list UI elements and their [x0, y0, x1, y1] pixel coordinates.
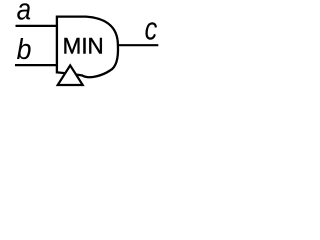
svg-text:a: a: [17, 0, 31, 27]
node label c: [145, 12, 158, 48]
wire a: [16, 25, 58, 27]
node label a: [17, 0, 31, 27]
triangle (weak/driver symbol): [58, 65, 83, 85]
wire b: [15, 64, 57, 66]
MIN gate U1 body: [57, 17, 118, 78]
wire c: [118, 44, 158, 46]
svg-text:c: c: [145, 12, 158, 48]
svg-text:MIN: MIN: [63, 33, 104, 58]
node label b: [17, 33, 32, 65]
svg-text:b: b: [17, 33, 32, 65]
